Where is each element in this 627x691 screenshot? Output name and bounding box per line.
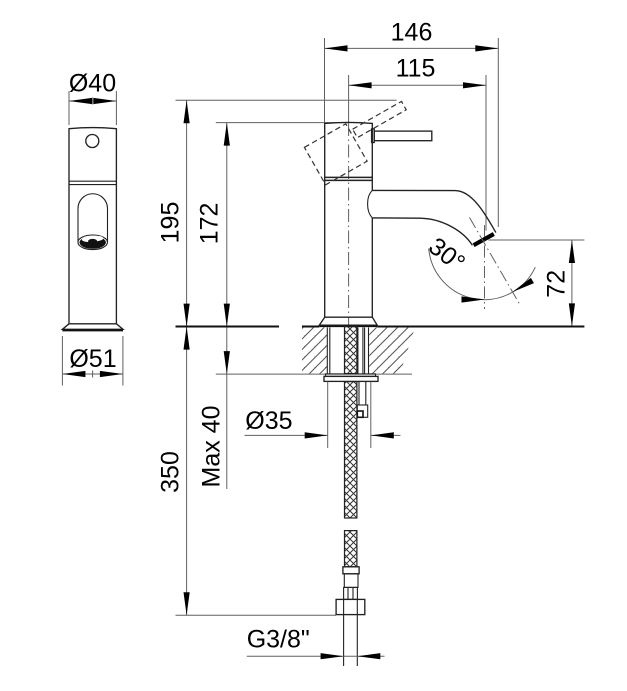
dimension D35 (hole size)	[245, 382, 401, 448]
side view: spout	[372, 190, 496, 245]
front view: aerator	[80, 236, 106, 249]
side view: handle lever raised (dashed phantom)	[304, 101, 406, 184]
side view: spout-body intersection curve	[368, 190, 373, 218]
svg-text:G3/8": G3/8"	[247, 626, 310, 654]
svg-text:172: 172	[196, 203, 224, 245]
braided hose lower segment	[345, 531, 357, 567]
dimension 146 (spout reach overall)	[325, 19, 499, 228]
side view: spout outlet face	[474, 234, 494, 245]
mounting flange washer	[324, 374, 378, 382]
deck / counter top line	[176, 326, 585, 328]
svg-text:115: 115	[396, 55, 436, 83]
deck cross-section hatching left	[302, 327, 327, 373]
threaded tail pipe	[344, 615, 358, 666]
dimension D51 (front view base width)	[62, 336, 123, 386]
front view: spout window	[78, 194, 108, 243]
connector nut G3/8	[336, 599, 365, 614]
front view: handle pin hole	[86, 135, 99, 148]
svg-text:72: 72	[543, 270, 571, 298]
dimension Max 40 (deck thickness)	[198, 327, 413, 489]
deck hole edges and shank	[327, 327, 368, 373]
side view: handle lever (closed position)	[372, 129, 432, 143]
svg-text:30°: 30°	[423, 232, 470, 277]
svg-text:Ø40: Ø40	[69, 70, 116, 98]
hose crimp collar	[343, 567, 359, 574]
svg-text:195: 195	[157, 202, 185, 244]
dimension 350 (hose length below deck)	[157, 327, 337, 616]
svg-text:146: 146	[391, 19, 433, 47]
dimension D40 (front view top width)	[69, 70, 117, 126]
deck cross-section hatching right	[369, 327, 415, 373]
svg-text:350: 350	[157, 451, 185, 493]
mounting stud and nut	[357, 382, 367, 418]
dimension 195 (height to open handle top)	[157, 100, 397, 326]
side view: faucet body and cap	[319, 122, 377, 326]
hose end fitting tube	[344, 574, 358, 588]
svg-text:Max 40: Max 40	[198, 406, 226, 488]
braided supply hose upper	[345, 327, 357, 518]
side view: base flare	[319, 317, 377, 325]
front view: cap joint lines	[69, 181, 116, 184]
dimension 72 (outlet height above deck)	[489, 240, 585, 326]
hose connector nipple	[344, 587, 358, 599]
svg-text:Ø35: Ø35	[245, 407, 292, 435]
dimension 115 (spout reach to axis)	[349, 55, 486, 231]
angle dimension 30 degrees	[423, 218, 535, 310]
front view: faucet body	[62, 128, 123, 331]
side view: vertical centerline	[348, 123, 350, 328]
dimension 172 (height to body top)	[196, 123, 341, 327]
dimension G3/8 inch thread	[247, 626, 385, 660]
side view: cap joint lines	[325, 177, 373, 180]
svg-text:Ø51: Ø51	[69, 345, 116, 373]
front view: base flare	[62, 324, 123, 330]
